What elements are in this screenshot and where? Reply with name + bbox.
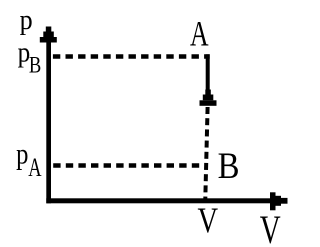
svg-text:A: A (28, 153, 42, 182)
svg-text:p: p (16, 137, 28, 170)
svg-text:B: B (218, 145, 240, 186)
svg-text:B: B (29, 52, 41, 78)
svg-text:p: p (20, 3, 33, 36)
svg-text:A: A (190, 13, 209, 53)
svg-text:V: V (260, 207, 281, 247)
svg-text:V: V (198, 201, 219, 241)
